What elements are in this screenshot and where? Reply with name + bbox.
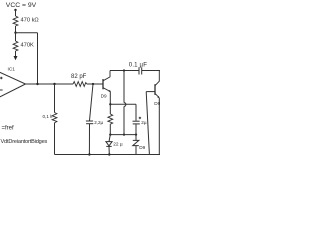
- svg-text:D9: D9: [154, 101, 160, 106]
- junction dot output/R3: [53, 83, 55, 85]
- capacitor C2 0.1 uF plates: [138, 67, 140, 74]
- svg-text:D9: D9: [101, 93, 107, 98]
- op-amp plus input mark: [0, 77, 3, 80]
- transistor Q1 collector: [103, 71, 110, 81]
- transistor Q1 base bar: [102, 79, 104, 89]
- wire R3 column down: [54, 84, 56, 113]
- wire emitter node to C3 elbow: [110, 103, 136, 105]
- wire feedback vertical: [37, 33, 39, 84]
- svg-text:VdtDreiantortBidges: VdtDreiantortBidges: [1, 139, 48, 145]
- svg-text:82 pF: 82 pF: [71, 74, 87, 80]
- svg-text:2,2µ: 2,2µ: [94, 120, 103, 125]
- svg-text:0,1 k: 0,1 k: [43, 114, 54, 119]
- wire diode to ground: [108, 146, 110, 154]
- op-amp IC1 triangle: [0, 72, 26, 98]
- resistor R4 82 pF zigzag on output line: [73, 82, 87, 87]
- wire Q2 base elbow: [146, 91, 155, 93]
- svg-text:VCC = 9V: VCC = 9V: [6, 2, 37, 9]
- wire diode top: [109, 135, 110, 142]
- transistor Q2 base bar: [154, 84, 156, 95]
- wire C1 to ground rail: [88, 124, 90, 155]
- svg-text:D9: D9: [139, 145, 145, 150]
- wire C3 column top: [135, 104, 137, 121]
- junction dot on top rail: [123, 69, 125, 71]
- junction dot emitter column bottom: [109, 133, 111, 135]
- junction dot feedback/output: [36, 83, 38, 85]
- wire node A to feedback corner: [16, 32, 38, 34]
- wire R1 to node A: [15, 26, 17, 33]
- svg-text:470K: 470K: [21, 43, 34, 49]
- junction dot emitter node: [109, 103, 111, 105]
- wire middle column with hop: [123, 71, 125, 103]
- resistor R2 470K zigzag: [15, 33, 17, 41]
- zener D2 Z symbol: [133, 140, 139, 145]
- diode D1 triangle: [106, 142, 112, 146]
- wire VCC down to R1: [15, 10, 17, 16]
- junction dot output/C1 column: [92, 83, 94, 85]
- wire R3 to ground rail: [54, 123, 56, 155]
- svg-text:2µ: 2µ: [141, 120, 147, 125]
- svg-text:IC1: IC1: [8, 67, 16, 73]
- svg-text:=fref: =fref: [2, 125, 15, 131]
- svg-text:470 kΩ: 470 kΩ: [21, 18, 39, 24]
- capacitor C3 plates: [133, 120, 140, 122]
- transistor Q2 emitter with arrow: [155, 93, 159, 97]
- top rail from Q1 collector: [110, 70, 139, 72]
- wire Z bottom: [135, 146, 137, 155]
- junction dot C1/ground: [88, 153, 90, 155]
- arrow down (input): [14, 56, 18, 60]
- resistor R5 zigzag on emitter column: [109, 104, 111, 114]
- wire R2 to arrow: [15, 51, 17, 56]
- VCC terminal dot: [14, 9, 16, 11]
- svg-text:0.1 µF: 0.1 µF: [129, 61, 147, 68]
- transistor Q1 emitter with arrow: [103, 88, 110, 92]
- resistor R3 0,1k zigzag: [52, 113, 57, 123]
- wire C3 to junction: [135, 124, 137, 134]
- svg-text:22 µ: 22 µ: [113, 141, 123, 147]
- node A junction dot: [14, 32, 16, 34]
- wire bottom interconnect: [110, 134, 136, 136]
- wire op-amp output: [26, 83, 74, 85]
- capacitor C1 plates 2,2u: [86, 120, 93, 122]
- polarity plus mark C3: [139, 117, 141, 119]
- wire Z top: [135, 135, 137, 141]
- junction dot diode/ground: [108, 153, 110, 155]
- op-amp minus input mark: [0, 89, 3, 91]
- capacitor C1 column wire top: [90, 84, 94, 121]
- resistor R1 470 kOhm zigzag: [13, 16, 18, 26]
- junction dot middle column bottom: [123, 133, 125, 135]
- wire Q2 base column slanted: [146, 92, 149, 155]
- junction dot C3 bottom: [135, 133, 137, 135]
- wire Q1 emitter down: [109, 92, 111, 105]
- diode D1 cathode bar: [106, 145, 111, 147]
- ground rail bottom: [55, 154, 161, 156]
- wire Q2 emitter down: [158, 98, 160, 155]
- transistor Q2 collector: [155, 71, 159, 86]
